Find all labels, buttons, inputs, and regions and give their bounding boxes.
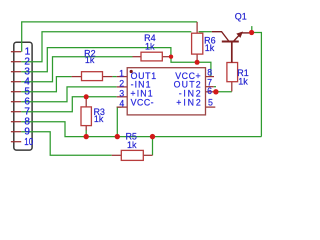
svg-text:4: 4 (119, 98, 124, 108)
svg-text:Q1: Q1 (235, 12, 247, 22)
svg-text:1k: 1k (94, 114, 104, 124)
svg-text:1k: 1k (127, 140, 137, 150)
svg-text:9: 9 (24, 127, 30, 138)
svg-text:1k: 1k (145, 41, 155, 51)
svg-text:6: 6 (207, 86, 212, 96)
svg-text:3: 3 (119, 88, 124, 98)
svg-text:8: 8 (207, 68, 212, 78)
svg-text:10: 10 (24, 137, 33, 148)
svg-text:1: 1 (119, 68, 124, 78)
svg-text:1k: 1k (205, 43, 215, 53)
svg-text:+IN2: +IN2 (176, 98, 201, 108)
svg-text:1k: 1k (238, 77, 248, 87)
svg-text:VCC-: VCC- (131, 98, 154, 108)
svg-text:1k: 1k (85, 55, 95, 65)
svg-text:2: 2 (119, 78, 124, 88)
svg-text:5: 5 (208, 97, 213, 107)
